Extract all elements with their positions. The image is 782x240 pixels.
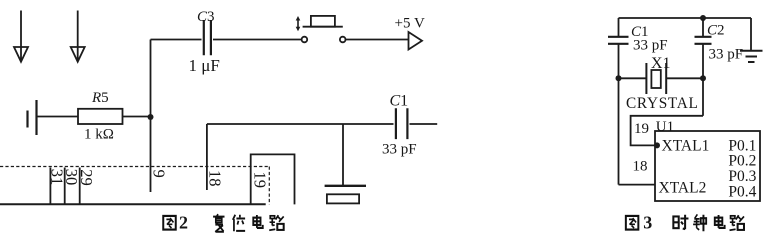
svg-text:1 kΩ: 1 kΩ bbox=[84, 127, 114, 143]
svg-text:19: 19 bbox=[251, 172, 270, 189]
svg-text:3: 3 bbox=[643, 213, 652, 233]
svg-text:XTAL2: XTAL2 bbox=[659, 180, 707, 197]
svg-text:P0.4: P0.4 bbox=[728, 183, 756, 200]
svg-text:+5 V: +5 V bbox=[395, 16, 425, 32]
svg-text:C1: C1 bbox=[390, 93, 409, 110]
svg-text:9: 9 bbox=[150, 170, 169, 178]
svg-text:33 pF: 33 pF bbox=[633, 38, 668, 54]
svg-text:2: 2 bbox=[179, 213, 188, 233]
svg-text:29: 29 bbox=[77, 169, 96, 186]
svg-text:U1: U1 bbox=[656, 119, 674, 135]
svg-text:XTAL1: XTAL1 bbox=[662, 137, 710, 154]
svg-text:X1: X1 bbox=[651, 55, 671, 72]
svg-text:19: 19 bbox=[634, 121, 649, 137]
svg-text:18: 18 bbox=[633, 159, 648, 175]
svg-text:18: 18 bbox=[206, 170, 225, 187]
svg-text:CRYSTAL: CRYSTAL bbox=[626, 95, 699, 112]
svg-text:C3: C3 bbox=[197, 9, 215, 25]
svg-text:R5: R5 bbox=[91, 90, 109, 106]
svg-text:C2: C2 bbox=[707, 23, 725, 39]
svg-text:33 pF: 33 pF bbox=[382, 142, 417, 158]
svg-text:1 μF: 1 μF bbox=[189, 56, 220, 75]
svg-text:33 pF: 33 pF bbox=[709, 47, 744, 63]
